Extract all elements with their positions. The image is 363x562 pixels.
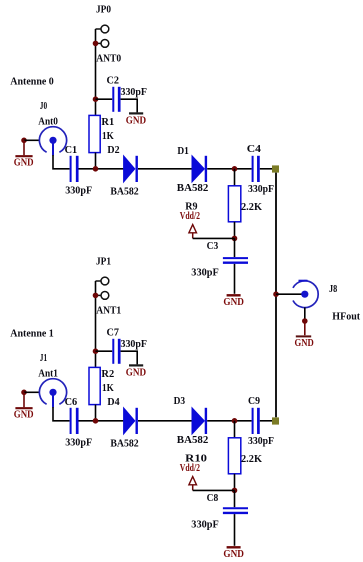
wire [138,168,192,170]
node port square HFout [272,417,279,424]
svg-text:Ant1: Ant1 [38,368,58,380]
wire [53,155,70,169]
diode D1 BA582 [177,145,209,194]
node junction Vdd/2 bias [232,236,238,242]
svg-text:GND: GND [126,115,146,127]
svg-text:330pF: 330pF [65,185,92,197]
diode D2 BA582 [107,144,139,198]
wire net ANT1 vertical [95,281,97,367]
svg-text:GND: GND [223,548,244,560]
wire [95,405,97,421]
node junction main row [93,166,99,172]
svg-text:2.2K: 2.2K [241,201,262,213]
wire [276,293,302,295]
jumper JP0 [96,4,112,48]
wire [260,168,272,170]
svg-text:1K: 1K [102,130,114,142]
node junction jumper JP0 pin2 [93,41,99,47]
power Vdd/2 [180,210,201,238]
wire [304,307,306,320]
node junction shunt branch [232,166,238,172]
wire [193,489,235,491]
svg-text:C9: C9 [248,395,260,407]
svg-text:J1: J1 [40,352,47,364]
node junction jumper JP1 pin2 [93,293,99,299]
svg-text:2.2K: 2.2K [241,453,262,465]
node junction main row [93,418,99,424]
wire [234,490,236,507]
wire net ANT0 vertical [95,29,97,115]
svg-text:Antenne 0: Antenne 0 [10,76,54,88]
wire [207,420,251,422]
wire [121,99,138,112]
svg-text:C8: C8 [207,492,219,504]
wire [121,351,138,364]
node junction J1 shield [21,390,27,396]
diode D3 BA582 [174,395,209,446]
svg-text:Vdd/2: Vdd/2 [180,210,201,222]
svg-text:GND: GND [14,156,34,168]
capacitor C7 330pF [107,326,148,364]
capacitor C1 330pF [65,144,93,197]
svg-text:ANT0: ANT0 [96,53,121,65]
svg-text:330pF: 330pF [121,338,148,350]
svg-text:D3: D3 [174,395,186,407]
svg-text:330pF: 330pF [248,183,274,195]
resistor R10 2.2K [185,438,262,474]
svg-text:ANT1: ANT1 [96,305,121,317]
svg-text:BA582: BA582 [110,185,139,197]
svg-text:BA582: BA582 [110,437,139,449]
wire [234,169,236,186]
svg-text:R1: R1 [101,116,114,128]
ground under C2 [126,113,146,126]
svg-text:JP0: JP0 [96,4,111,16]
svg-text:330pF: 330pF [191,519,219,531]
svg-text:HFout: HFout [332,311,360,323]
svg-text:BA582: BA582 [177,182,209,194]
power Vdd/2 [180,462,201,490]
svg-text:GND: GND [223,296,244,308]
capacitor C3 330pF [191,240,248,278]
svg-text:330pF: 330pF [248,435,274,447]
node junction Vdd/2 bias [232,488,238,494]
capacitor C2 330pF [107,74,148,112]
node port square HFout [272,165,279,172]
wire [53,407,70,421]
wire [260,420,272,422]
svg-text:D4: D4 [107,396,120,408]
ground under C3 [223,295,244,308]
resistor R2 1K [89,367,115,404]
capacitor C9 330pF [248,395,274,447]
svg-text:C4: C4 [247,143,262,155]
svg-text:GND: GND [295,337,314,349]
svg-text:J0: J0 [40,100,48,112]
wire [95,153,97,169]
wire [79,420,124,422]
svg-text:1K: 1K [102,382,114,394]
resistor R9 2.2K [185,186,262,222]
resistor R1 1K [89,115,114,152]
wire [234,238,236,257]
wire [193,237,235,239]
ground under C8 [223,547,244,560]
wire [234,264,236,294]
node junction J0 shield [21,138,27,144]
svg-text:D2: D2 [107,144,120,156]
ground at J0 [14,140,34,168]
svg-text:C7: C7 [107,326,120,338]
capacitor C4 330pF [247,143,274,195]
svg-text:Antenne 1: Antenne 1 [10,328,54,340]
connector J0 Ant0 [38,100,66,155]
node junction shunt branch [232,418,238,424]
wire [96,98,113,100]
svg-text:Vdd/2: Vdd/2 [180,462,201,474]
connector J8 HFout [293,281,360,323]
capacitor C8 330pF [191,492,248,530]
wire [207,168,251,170]
svg-text:C6: C6 [65,396,78,408]
ground under C7 [126,365,146,378]
svg-text:C1: C1 [65,144,78,156]
ground at J1 [14,392,34,420]
svg-text:330pF: 330pF [65,437,92,449]
ground under J8 [295,321,314,349]
svg-text:GND: GND [14,408,34,420]
capacitor C6 330pF [65,396,93,449]
svg-text:BA582: BA582 [177,434,209,446]
svg-text:D1: D1 [177,145,189,157]
connector J1 Ant1 [38,352,66,407]
wire [234,421,236,438]
wire [96,350,113,352]
svg-text:C2: C2 [107,74,120,86]
wire [234,514,236,546]
svg-text:330pF: 330pF [191,267,219,279]
wire [79,168,124,170]
svg-text:JP1: JP1 [96,256,111,268]
svg-text:J8: J8 [329,283,338,295]
svg-text:GND: GND [126,367,146,379]
wire [234,474,236,491]
wire [24,139,40,141]
node junction C2 branch [93,96,99,102]
svg-text:C3: C3 [207,240,219,252]
svg-text:Ant0: Ant0 [38,116,58,128]
svg-text:330pF: 330pF [121,86,148,98]
wire output bus [275,173,277,418]
jumper JP1 [96,256,112,300]
diode D4 BA582 [107,396,139,450]
wire [24,391,40,393]
node junction J8 tap [273,291,279,297]
wire [234,222,236,239]
wire [138,420,192,422]
node junction C7 branch [93,348,99,354]
node J8 ground pin [302,318,308,324]
svg-text:R2: R2 [101,368,114,380]
